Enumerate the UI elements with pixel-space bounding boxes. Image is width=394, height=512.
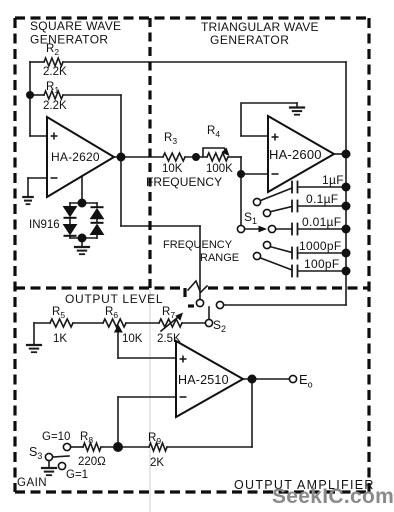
svg-text:100K: 100K <box>206 163 233 175</box>
svg-text:2.2K: 2.2K <box>43 100 67 112</box>
svg-text:SeekIC.com: SeekIC.com <box>272 485 394 508</box>
svg-text:10K: 10K <box>162 163 183 175</box>
svg-text:2.2K: 2.2K <box>43 66 67 78</box>
svg-text:SQUARE WAVE: SQUARE WAVE <box>30 19 121 33</box>
svg-text:1000pF: 1000pF <box>299 239 342 253</box>
svg-text:220Ω: 220Ω <box>78 456 106 468</box>
svg-text:2K: 2K <box>150 457 164 469</box>
svg-text:HA-2600: HA-2600 <box>269 147 322 162</box>
svg-text:FREQUENCY: FREQUENCY <box>146 175 222 189</box>
svg-text:10K: 10K <box>122 333 143 345</box>
svg-text:GENERATOR: GENERATOR <box>210 33 289 47</box>
svg-text:100pF: 100pF <box>304 257 340 271</box>
svg-text:RANGE: RANGE <box>200 252 239 264</box>
svg-text:0.1µF: 0.1µF <box>306 192 338 206</box>
svg-text:IN916: IN916 <box>29 219 60 231</box>
svg-text:HA-2620: HA-2620 <box>51 150 100 164</box>
svg-text:0.01µF: 0.01µF <box>302 215 341 229</box>
svg-text:GAIN: GAIN <box>17 477 47 489</box>
svg-text:1K: 1K <box>53 333 67 345</box>
svg-text:2.5K: 2.5K <box>157 333 181 345</box>
svg-text:GENERATOR: GENERATOR <box>30 33 109 47</box>
svg-text:HA-2510: HA-2510 <box>178 373 229 387</box>
svg-text:OUTPUT LEVEL: OUTPUT LEVEL <box>65 292 163 306</box>
svg-text:TRIANGULAR WAVE: TRIANGULAR WAVE <box>201 20 319 34</box>
svg-text:G=1: G=1 <box>66 469 88 481</box>
svg-text:1µF: 1µF <box>322 173 344 187</box>
svg-text:G=10: G=10 <box>42 431 70 443</box>
svg-text:FREQUENCY: FREQUENCY <box>163 239 233 251</box>
